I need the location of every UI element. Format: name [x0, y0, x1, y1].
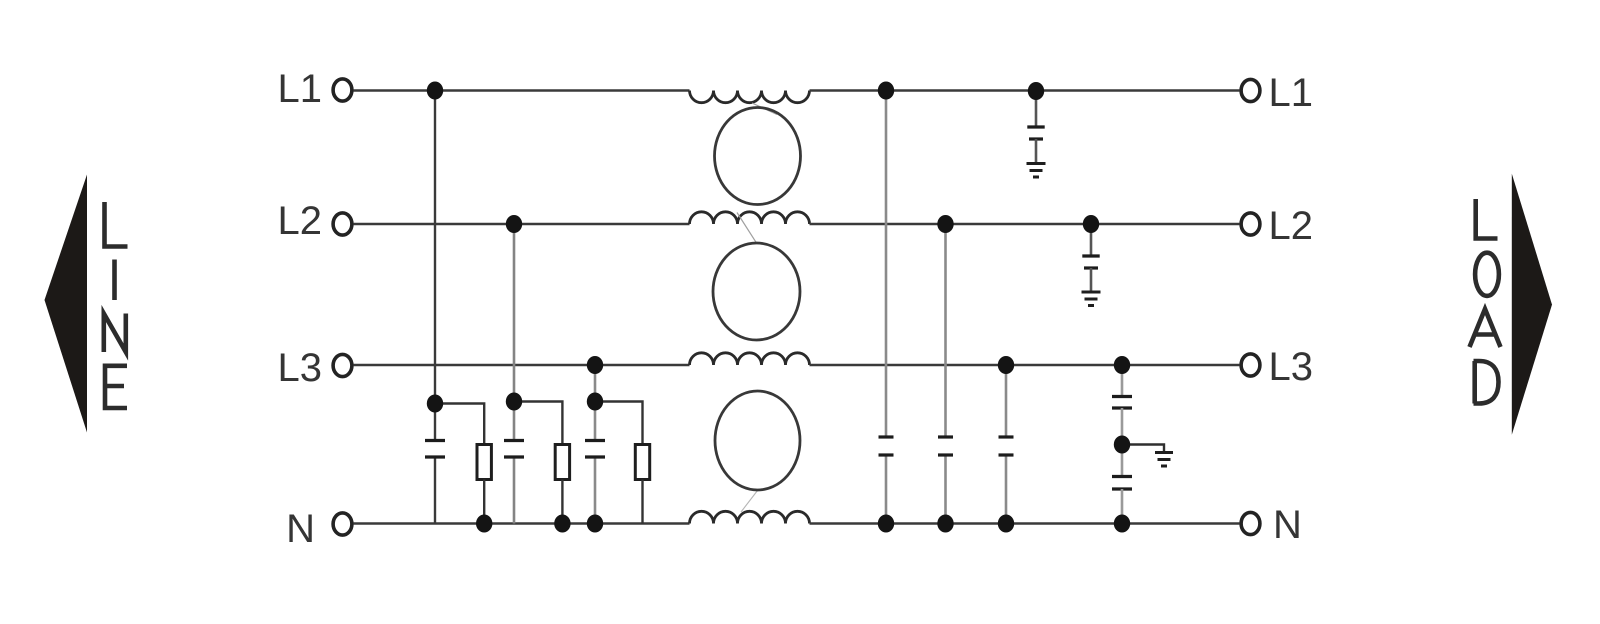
capacitor X3 (L3 to N) plates	[585, 439, 605, 442]
svg-text:N: N	[1273, 503, 1302, 547]
wire stub branch 2 to bleeder resistor R2	[514, 402, 562, 445]
wire capacitor branch 1 lower lead to N	[434, 457, 436, 524]
arrow LOAD (right, pointing right)	[1512, 174, 1552, 435]
wire L2 right segment	[810, 223, 1240, 226]
inductor L1 winding (choke winding, humps down)	[690, 91, 810, 103]
wire from L1 down to Y-cap 1	[1035, 91, 1038, 127]
capacitor Y4 (earth node to N) plates	[1112, 475, 1132, 478]
capacitor X6 (L3 to N, load side) plates	[999, 435, 1014, 438]
wire Y4 lower lead to N	[1121, 489, 1124, 524]
junction dot N-Y4	[1114, 515, 1130, 533]
ground symbol 2	[1082, 292, 1101, 306]
wire cap lower lead to N	[944, 455, 947, 524]
svg-text:N: N	[286, 507, 315, 551]
label LOAD (vertical letters)	[1470, 199, 1501, 404]
wire L3 right segment	[810, 364, 1240, 367]
wire L3 left segment	[353, 364, 689, 367]
wire Y2 to ground	[1090, 268, 1093, 292]
capacitor Y1 (L1 to earth) plates	[1027, 125, 1044, 128]
junction dot L1-load vertical	[878, 82, 894, 100]
resistor R3	[635, 445, 649, 480]
svg-text:L2: L2	[278, 199, 323, 243]
wire from L2 down to Y-cap 2	[1090, 224, 1093, 256]
resistor R2	[555, 445, 569, 480]
wire R1 lower lead to N	[483, 480, 485, 524]
wire earth node stub to ground	[1122, 445, 1164, 453]
terminal N load-side	[1241, 512, 1260, 534]
junction dot N-R1	[476, 515, 492, 533]
inductor L3 winding (humps up)	[690, 353, 810, 365]
wire L1 right segment	[810, 89, 1240, 92]
wire stub branch 3 to bleeder resistor R3	[595, 402, 643, 445]
wire sketch diagonal coil L2 to core 2	[737, 213, 757, 244]
junction dot branch2 tee	[506, 393, 522, 411]
capacitor X2 (L2 to N) plates	[504, 439, 524, 442]
wire cap lower lead to N	[885, 455, 888, 524]
wire Y1 to ground	[1035, 139, 1038, 163]
svg-text:L2: L2	[1269, 204, 1314, 248]
junction dot L1-Y1	[1028, 82, 1044, 100]
wire R2 lower lead to N	[561, 480, 563, 524]
ground symbol 1	[1027, 164, 1046, 178]
svg-text:L3: L3	[1269, 345, 1314, 389]
terminal L2 line-side	[333, 213, 352, 235]
toroid core circle 3 (between L3 and N)	[715, 391, 800, 490]
wire capacitor branch 2 lower lead to N	[513, 457, 516, 524]
junction dot N-X5	[937, 515, 953, 533]
wire sketch diagonal coil L1 to core 1	[752, 103, 777, 115]
wire vertical from L3 junction (load side) down to cap	[1005, 365, 1008, 437]
junction dot N-X4	[878, 515, 894, 533]
wire vertical from L3 junction down to X-cap branch 3	[594, 365, 597, 441]
junction dot L1-branch1	[427, 82, 443, 100]
terminal L1 line-side	[333, 79, 352, 101]
wire capacitor branch 3 lower lead to N	[594, 457, 597, 524]
junction dot N-branch3	[587, 515, 603, 533]
inductor L2 winding (humps up)	[690, 212, 810, 224]
wire N right segment	[810, 522, 1240, 525]
wire vertical from L1 junction down to X-cap branch 1	[434, 91, 436, 441]
wire from L3 junction down to Y-cap 3	[1121, 365, 1124, 397]
svg-text:L1: L1	[1269, 71, 1314, 115]
resistor R1	[477, 445, 491, 480]
capacitor Y3 (L3 to earth node) plates	[1112, 395, 1132, 398]
toroid core circle 1 (between L1 and L2)	[715, 108, 801, 205]
ground symbol 3	[1155, 453, 1173, 467]
wire N left segment	[353, 522, 689, 525]
svg-text:L3: L3	[278, 346, 323, 390]
capacitor X5 (L2 to N, load side) plates	[938, 435, 953, 438]
terminal L2 load-side	[1241, 213, 1260, 235]
inductor N winding (humps up)	[690, 511, 810, 523]
capacitor X4 (L1 to N, load side) plates	[879, 435, 894, 438]
wire sketch diagonal coil N to core 3	[741, 491, 758, 513]
terminal L3 load-side	[1241, 354, 1260, 376]
terminal N line-side	[333, 513, 352, 535]
capacitor X1 (L1 to N) plates	[425, 439, 445, 442]
wire vertical from L2 junction (load side) down to cap	[944, 224, 947, 437]
wire L2 left segment	[353, 223, 689, 226]
junction dot L2-branch2	[506, 215, 522, 233]
wire stub branch 1 to bleeder resistor R1	[435, 404, 484, 445]
junction dot earth node	[1114, 436, 1130, 454]
toroid core circle 2 (between L2 and L3)	[713, 243, 800, 340]
wire between Y-cap 3 and Y-cap 4 (earth node)	[1121, 408, 1124, 477]
terminal L1 load-side	[1241, 79, 1260, 101]
junction dot L3-branch3	[587, 356, 603, 374]
junction dot N-R2	[554, 515, 570, 533]
junction dot branch3 tee	[587, 393, 603, 411]
junction dot branch1 tee	[427, 395, 443, 413]
terminal L3 line-side	[333, 354, 352, 376]
wire L1 left segment	[353, 89, 689, 92]
junction dot L2-load vertical	[937, 215, 953, 233]
wire vertical from L1 junction (load side) down to cap	[885, 91, 888, 438]
junction dot N-X6	[998, 515, 1014, 533]
svg-text:L1: L1	[278, 67, 323, 111]
arrow LINE (left, pointing left)	[45, 175, 88, 433]
wire cap lower lead to N	[1005, 455, 1008, 524]
junction dot L3-load vertical	[998, 356, 1014, 374]
wire R3 lower lead to N	[641, 480, 643, 524]
wire vertical from L2 junction down to X-cap branch 2	[513, 224, 516, 441]
capacitor Y2 (L2 to earth) plates	[1082, 254, 1099, 257]
junction dot L3-Y3	[1114, 356, 1130, 374]
junction dot L2-Y2	[1083, 215, 1099, 233]
label LINE (vertical letters)	[104, 202, 128, 408]
